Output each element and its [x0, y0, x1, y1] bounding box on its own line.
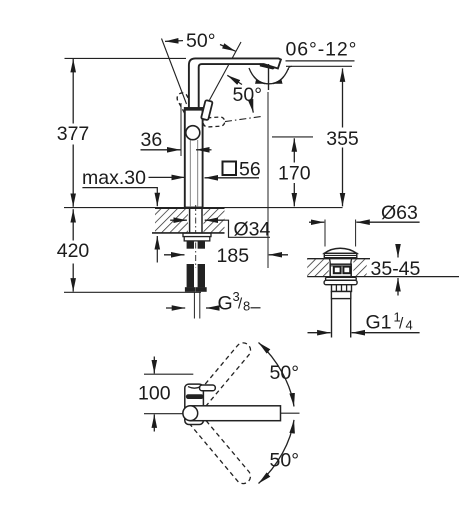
svg-text:50°: 50°: [186, 30, 216, 52]
svg-text:/: /: [399, 316, 404, 333]
svg-text:170: 170: [278, 162, 311, 184]
svg-text:06°-12°: 06°-12°: [286, 39, 358, 61]
svg-text:max.30: max.30: [82, 167, 146, 189]
svg-text:Ø63: Ø63: [381, 202, 418, 224]
svg-text:G: G: [218, 293, 233, 315]
svg-text:8: 8: [243, 299, 250, 314]
svg-text:4: 4: [406, 318, 413, 333]
svg-text:50°: 50°: [233, 84, 263, 106]
svg-text:50°: 50°: [270, 362, 300, 384]
svg-text:100: 100: [138, 383, 171, 405]
svg-text:50°: 50°: [270, 450, 300, 472]
svg-text:35-45: 35-45: [371, 258, 421, 280]
svg-text:G1: G1: [366, 312, 392, 334]
svg-text:377: 377: [57, 123, 90, 145]
svg-text:185: 185: [217, 245, 250, 267]
svg-text:355: 355: [326, 128, 359, 150]
svg-text:36: 36: [141, 129, 163, 151]
svg-text:420: 420: [57, 240, 90, 262]
svg-text:Ø34: Ø34: [234, 218, 271, 240]
